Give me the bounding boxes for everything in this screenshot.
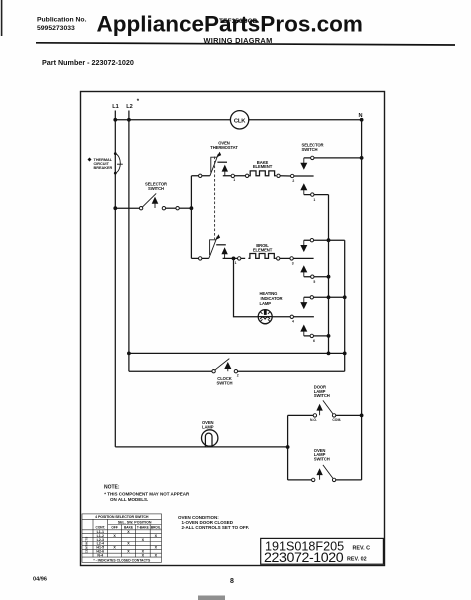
oven thermostat: [210, 140, 238, 175]
svg-text:L1: L1: [112, 104, 119, 110]
heating indicator lamp: [258, 291, 282, 324]
terminal bake connector pin 2: [291, 174, 295, 183]
svg-text:THERMOSTAT: THERMOSTAT: [210, 145, 238, 150]
svg-text:ON ALL MODELS.: ON ALL MODELS.: [110, 497, 148, 502]
svg-text:T-BAKE: T-BAKE: [137, 526, 149, 530]
wire indicator row right: [272, 316, 314, 318]
table text: [85, 515, 161, 562]
wire indicator lamp riser: [234, 258, 259, 316]
door lamp switch label: [314, 384, 330, 398]
terminal bake row left: [199, 174, 202, 177]
wire door rect left: [287, 415, 289, 480]
svg-text:SEL. SW. POSITION: SEL. SW. POSITION: [118, 521, 152, 525]
wire bus B: [344, 240, 346, 371]
svg-text:4 POSITION SELECTOR SWITCH: 4 POSITION SELECTOR SWITCH: [95, 515, 149, 519]
svg-text:REV. C: REV. C: [353, 546, 371, 552]
svg-text:LAMP: LAMP: [202, 424, 214, 429]
svg-text:Part Number - 223072-1020: Part Number - 223072-1020: [42, 58, 134, 67]
svg-text:* THIS COMPONENT MAY NOT APPEA: * THIS COMPONENT MAY NOT APPEAR: [104, 492, 190, 497]
wire bake row mid: [223, 175, 246, 177]
wire broil row left: [191, 257, 208, 259]
svg-text:SWITCH: SWITCH: [302, 147, 318, 152]
svg-text:3: 3: [292, 261, 294, 265]
svg-text:2: 2: [292, 179, 294, 183]
node N: [358, 113, 362, 119]
junction busB row297: [343, 295, 347, 299]
junction L1 selector: [113, 206, 117, 210]
junction L2 rail: [127, 118, 131, 122]
svg-text:ELEMENT: ELEMENT: [253, 164, 273, 169]
svg-text:5995273033: 5995273033: [37, 25, 75, 32]
svg-text:Publication No.: Publication No.: [37, 16, 87, 23]
wire top rail: [115, 119, 361, 121]
selector switch left: [139, 181, 191, 210]
footer gray bar: [198, 596, 225, 600]
junction busA row297: [327, 295, 331, 299]
svg-text:REV. 02: REV. 02: [347, 557, 367, 563]
contact row to N: [300, 156, 361, 170]
svg-text:L2: L2: [126, 104, 133, 110]
junction busA row336: [327, 334, 331, 338]
clock motor CLK: [230, 111, 248, 129]
svg-text:223072-1020: 223072-1020: [264, 550, 344, 566]
junction indicator riser: [232, 257, 236, 261]
oven condition note: [178, 515, 249, 530]
wire H1: [129, 352, 345, 354]
oven lamp: [202, 430, 218, 447]
mechanical link dashed: [214, 157, 216, 240]
svg-text:* - INDICATES CLOSED CONTACTS: * - INDICATES CLOSED CONTACTS: [93, 558, 151, 562]
broil thermostat: [209, 234, 228, 258]
junction N rail: [360, 118, 364, 122]
svg-text:6: 6: [313, 339, 315, 343]
note: [104, 484, 190, 502]
terminal broil connector pin 3: [290, 257, 294, 266]
scan edge mark: [1, 0, 3, 36]
svg-text:NOTE:: NOTE:: [104, 484, 120, 490]
border frame: [81, 92, 385, 566]
junction N row158: [360, 156, 364, 160]
node L1: [112, 104, 119, 120]
selector table: [82, 514, 162, 562]
junction oven lamp feed: [286, 445, 290, 449]
svg-text:04/96: 04/96: [33, 576, 47, 582]
junction L2 H1: [127, 352, 131, 356]
door lamp switch: [288, 400, 362, 422]
terminal broil row left: [199, 257, 202, 260]
svg-text:LAMP: LAMP: [260, 301, 272, 306]
wire H2 clock line: [129, 370, 345, 372]
junction N door switch: [360, 414, 364, 418]
wire riser bake-broil: [190, 176, 192, 259]
terminal bake element left: [245, 174, 248, 177]
label thermal circuit breaker: [88, 158, 113, 170]
svg-text:1: 1: [313, 198, 315, 202]
contact row 297: [300, 296, 344, 310]
wire oven lamp line: [115, 446, 287, 448]
junction busB H1: [343, 352, 347, 356]
svg-text:N-4: N-4: [97, 553, 103, 557]
thermal circuit breaker: [114, 152, 123, 174]
svg-text:2: 2: [237, 374, 239, 378]
svg-text:ELEMENT: ELEMENT: [253, 248, 273, 253]
junction riser selector: [190, 206, 194, 210]
oven lamp label: [202, 420, 214, 429]
clock switch: [212, 359, 239, 386]
wire broil row right: [277, 257, 314, 259]
terminal broil element right: [277, 257, 280, 260]
wire bake row left: [191, 175, 210, 177]
wire bake row right: [277, 175, 314, 177]
header rule: [36, 43, 455, 45]
svg-text:BROIL: BROIL: [151, 526, 161, 530]
svg-text:1: 1: [233, 178, 235, 182]
wire broil row mid: [223, 257, 246, 259]
junction busA H1: [327, 352, 331, 356]
svg-text:CONTACTS: CONTACTS: [85, 537, 89, 553]
junction busA row240: [327, 238, 331, 242]
svg-text:*: *: [137, 99, 140, 105]
wire L2 bus: [128, 120, 130, 371]
contact row 195: [300, 183, 328, 202]
svg-text:SWITCH: SWITCH: [148, 186, 164, 191]
svg-text:4: 4: [292, 320, 294, 324]
junction L1 rail: [113, 118, 117, 122]
svg-text:2-ALL CONTROLS SET TO OFF.: 2-ALL CONTROLS SET TO OFF.: [182, 525, 250, 530]
terminal bake connector pin 1: [231, 174, 235, 182]
wire L1 bus: [114, 120, 116, 447]
selector switch right top label: [302, 143, 324, 153]
wire bus A: [328, 195, 330, 354]
terminal bake element right: [277, 174, 280, 177]
terminal broil element left: [238, 257, 241, 260]
revision box: [261, 538, 384, 566]
junction busA row277: [327, 275, 331, 279]
svg-text:CLK: CLK: [234, 118, 246, 124]
svg-text:SWITCH: SWITCH: [217, 380, 233, 385]
contact row 240: [300, 239, 344, 253]
bake element: [249, 160, 276, 176]
svg-text:N.O.: N.O.: [310, 418, 317, 422]
svg-text:COM.: COM.: [332, 418, 341, 422]
wire N bus: [361, 120, 363, 480]
svg-text:SWITCH: SWITCH: [314, 457, 330, 462]
oven lamp switch: [288, 465, 362, 482]
svg-text:BREAKER: BREAKER: [94, 166, 113, 170]
contact row 336: [300, 325, 328, 344]
svg-text:OFF: OFF: [111, 526, 117, 530]
svg-text:8: 8: [230, 578, 234, 585]
terminal indicator lamp pin 4: [290, 315, 294, 324]
wire selector feed: [115, 207, 139, 209]
svg-text:SWITCH: SWITCH: [314, 393, 330, 398]
svg-text:1: 1: [235, 261, 237, 265]
node L2: [126, 99, 140, 120]
contact row 277: [300, 265, 328, 284]
oven lamp switch label: [314, 448, 330, 462]
svg-text:TEF351CCB: TEF351CCB: [219, 18, 258, 25]
svg-text:5: 5: [313, 280, 315, 284]
broil element: [248, 243, 276, 258]
